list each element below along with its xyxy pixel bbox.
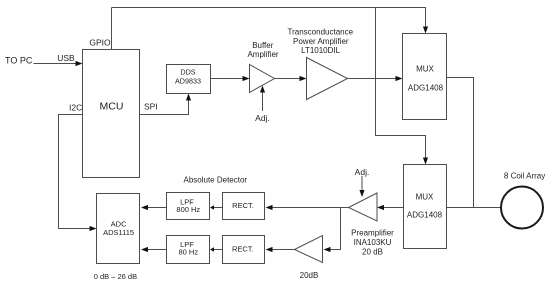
svg-text:LT1010DIL: LT1010DIL xyxy=(301,46,341,55)
svg-text:ADG1408: ADG1408 xyxy=(407,211,443,220)
svg-text:Amplifier: Amplifier xyxy=(247,50,278,59)
svg-text:Preamplifier: Preamplifier xyxy=(351,229,394,238)
svg-text:RECT.: RECT. xyxy=(232,201,254,210)
svg-text:20dB: 20dB xyxy=(300,271,319,280)
svg-text:SPI: SPI xyxy=(144,102,158,112)
svg-text:Buffer: Buffer xyxy=(252,41,274,50)
svg-text:ADS1115: ADS1115 xyxy=(103,228,134,237)
svg-text:Power Amplifier: Power Amplifier xyxy=(293,37,349,46)
svg-text:MUX: MUX xyxy=(416,192,434,201)
svg-text:80 Hz: 80 Hz xyxy=(179,247,199,256)
svg-text:AD9833: AD9833 xyxy=(175,77,201,86)
svg-text:TO PC: TO PC xyxy=(5,56,33,66)
svg-text:DDS: DDS xyxy=(180,68,195,77)
svg-text:MUX: MUX xyxy=(416,65,434,74)
svg-text:Transconductance: Transconductance xyxy=(288,28,354,37)
svg-text:USB: USB xyxy=(57,53,75,63)
svg-text:I2C: I2C xyxy=(69,102,82,112)
svg-text:8 Coil Array: 8 Coil Array xyxy=(504,171,545,180)
svg-text:ADG1408: ADG1408 xyxy=(408,84,444,93)
svg-text:GPIO: GPIO xyxy=(89,37,111,47)
svg-text:MCU: MCU xyxy=(100,100,124,112)
svg-text:RECT.: RECT. xyxy=(232,245,254,254)
svg-text:Adj.: Adj. xyxy=(255,113,270,123)
svg-text:Adj.: Adj. xyxy=(355,167,370,177)
svg-text:Absolute Detector: Absolute Detector xyxy=(184,175,248,184)
svg-text:20 dB: 20 dB xyxy=(362,247,383,256)
svg-text:INA103KU: INA103KU xyxy=(354,238,392,247)
svg-text:800 Hz: 800 Hz xyxy=(176,205,200,214)
svg-text:0 dB – 26 dB: 0 dB – 26 dB xyxy=(94,272,137,281)
svg-text:ADC: ADC xyxy=(111,220,127,229)
